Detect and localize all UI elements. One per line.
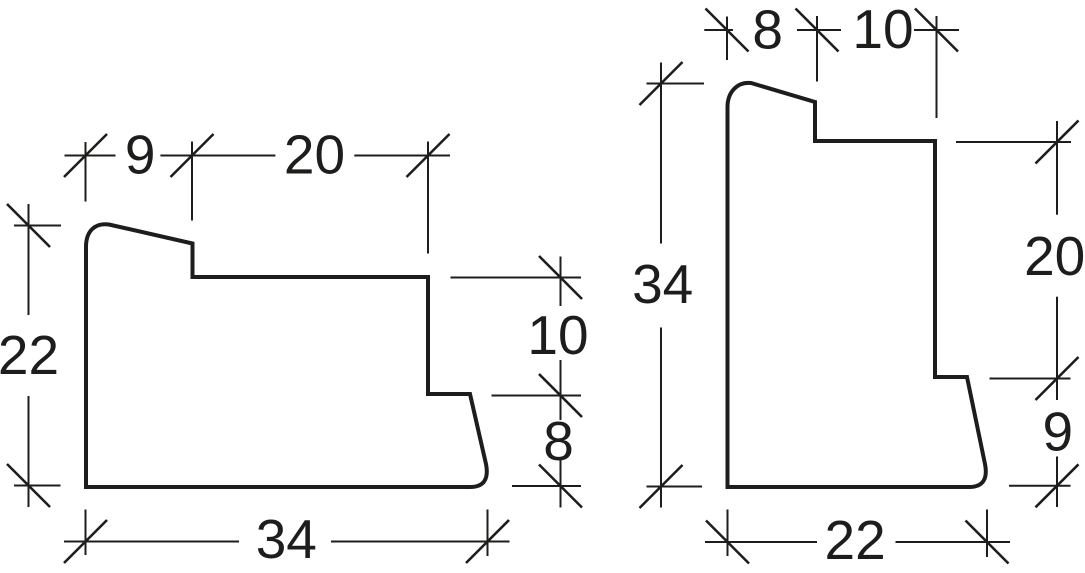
svg-text:9: 9 — [125, 123, 156, 185]
svg-text:9: 9 — [1043, 401, 1074, 463]
svg-text:22: 22 — [0, 324, 59, 386]
svg-text:34: 34 — [632, 253, 693, 315]
svg-text:22: 22 — [825, 509, 886, 571]
svg-text:8: 8 — [752, 0, 783, 61]
svg-text:8: 8 — [543, 410, 574, 472]
svg-text:10: 10 — [527, 304, 588, 366]
svg-text:20: 20 — [1024, 225, 1085, 287]
svg-text:20: 20 — [284, 124, 345, 186]
svg-text:10: 10 — [852, 0, 913, 60]
svg-text:34: 34 — [256, 508, 317, 570]
